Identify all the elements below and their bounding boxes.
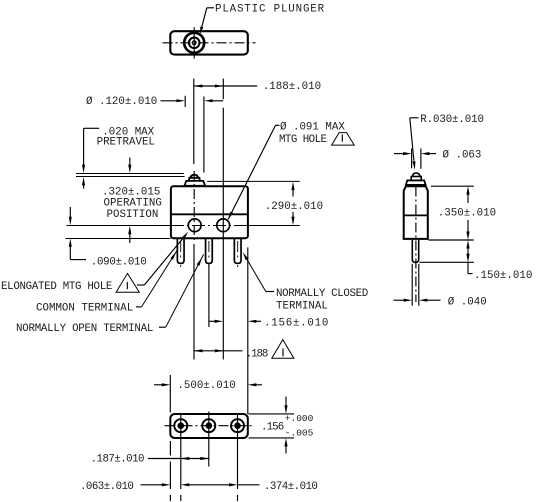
extension line left of .188 top dim [193,79,195,165]
svg-text:POSITION: POSITION [107,209,159,221]
side nib dome [412,173,420,176]
svg-text:.374±.010: .374±.010 [264,481,317,493]
svg-text:.156±.010: .156±.010 [264,317,329,329]
text .290 [265,201,323,213]
.156 stk bottom extension [249,437,295,439]
flag triangle 1 after MTG HOLE [332,133,355,146]
svg-text:Ø .091 MAX: Ø .091 MAX [280,122,345,134]
text ELONGATED MTG HOLE [1,281,112,293]
.500 extension left [169,375,171,413]
.350 bottom extension [429,239,474,241]
text .156 stacked [261,413,314,439]
svg-text:.090±.010: .090±.010 [91,256,147,268]
pretravel bracket and arrows [82,128,99,188]
dim line .188 top with arrows [194,85,257,88]
flag triangle 1 elongated [116,273,139,292]
bottom right crosshair [237,415,239,442]
svg-text:R.030±.010: R.030±.010 [420,114,484,126]
svg-text:NORMALLY OPEN TERMINAL: NORMALLY OPEN TERMINAL [16,323,153,335]
.374 extensions [237,442,239,502]
svg-text:.188: .188 [246,348,268,360]
note text MTG HOLE [279,134,327,146]
svg-text:COMMON TERMINAL: COMMON TERMINAL [36,303,133,315]
front body divider line [171,213,247,215]
.187 extensions [170,441,208,501]
svg-text:.156: .156 [261,422,284,434]
text .063 [80,481,133,493]
.290 dim line and arrows [291,182,294,226]
text NORMALLY OPEN TERMINAL [16,323,153,335]
text .020 MAX [102,126,154,138]
.090 bracket [70,259,86,261]
text Ø.040 [448,296,487,308]
svg-text:.188±.010: .188±.010 [263,81,321,93]
ext line plunger right edge [203,97,205,173]
text .350 [438,207,496,219]
bottom left terminal bullseye [174,419,187,432]
operating position line [76,176,185,178]
.090 arrows [69,207,72,260]
text OPERATING [104,198,162,210]
extension middle terminal lower [208,264,210,327]
bottom left crosshair [180,415,182,442]
text .188 lower [246,348,268,360]
text .150 [474,270,532,282]
svg-text:+.000: +.000 [285,413,314,424]
text R.030 [420,114,484,126]
top view vertical crosshair [193,27,195,58]
text .320 [102,187,160,199]
front body outline [171,186,248,238]
extension line left hole center lower [193,244,195,360]
.150 bracket [468,262,473,273]
dim Ø.120 leader+arrows [161,99,224,102]
top view housing outline [170,31,248,54]
svg-text:.350±.010: .350±.010 [438,207,496,219]
side collar [406,180,426,185]
front left terminal (common) [177,239,184,267]
bottom middle crosshair [208,412,210,442]
front plunger/hole vertical centerline [193,171,195,241]
.350 top extension [431,185,474,187]
front left mounting hole [188,219,201,232]
.150 terminal-bottom extension [420,261,474,263]
leader from Ø.091 note to NC hole [228,125,280,220]
leader common terminal [136,250,178,307]
body bottom extension left [66,238,171,240]
note text Ø.091 MAX [280,122,345,134]
svg-text:Ø .040: Ø .040 [448,296,487,308]
text .156 lower [264,317,329,329]
Ø.063 arrows [394,152,436,155]
front right mounting hole [217,219,230,232]
top view horizontal centerline [163,42,256,44]
.320 bottom arrow [128,226,131,243]
svg-text:.320±.015: .320±.015 [102,187,160,199]
front plunger flange [184,181,205,186]
text TERMINAL (nc) [276,300,328,312]
text COMMON TERMINAL [36,303,133,315]
svg-text:NORMALLY CLOSED: NORMALLY CLOSED [276,288,368,300]
side vertical centerline [415,187,417,303]
side nib [411,177,421,181]
svg-text:.500±.010: .500±.010 [177,380,235,392]
dim text .188 +-.010 top [263,81,321,93]
leader normally closed terminal [243,252,274,291]
.500 dim arrows [154,383,262,386]
text .374 [264,481,317,493]
leader elongated mtg hole [137,232,188,285]
bottom view horizontal centerline [165,425,254,427]
Ø.040 arrows [394,299,441,302]
ext line plunger left edge [184,96,186,107]
Ø.063 extensions [412,149,421,169]
.187 dim [148,457,209,460]
text NORMALLY CLOSED [276,288,368,300]
side body outline [404,186,428,239]
text POSITION [107,209,159,221]
flag triangle 1 after .188 [272,340,294,359]
svg-text:Ø .063: Ø .063 [443,150,482,162]
.156 stk top extension [249,413,295,415]
bottom right terminal bullseye [231,419,244,432]
svg-text:.150±.010: .150±.010 [474,270,532,282]
R.030 leader [410,118,419,170]
text Ø.063 [443,150,482,162]
.150 arrows [466,240,469,262]
.350 arrows [466,186,469,240]
.156 dim [209,320,261,323]
.320 top arrow [128,158,131,174]
extension line right (through NC hole) [222,79,224,360]
front middle terminal (normally open) [206,239,213,267]
svg-text:MTG HOLE: MTG HOLE [279,134,327,146]
front plunger dome [191,175,199,178]
.188 lower dim [194,349,243,352]
hole centerline horizontal [67,225,300,227]
svg-text:TERMINAL: TERMINAL [276,300,328,312]
front plunger mid tier [189,178,200,181]
text .090 [91,256,147,268]
label PLASTIC PLUNGER [215,4,325,16]
text PRETRAVEL [97,136,155,148]
svg-text:.290±.010: .290±.010 [265,201,323,213]
text .187 [91,454,144,466]
leader to PLASTIC PLUNGER text [200,8,214,33]
.156 stk arrows [284,397,287,454]
svg-text:-.005: -.005 [285,428,314,439]
dim text Ø.120 [86,96,157,108]
bottom middle terminal bullseye [202,419,215,432]
top view plunger bullseye [184,33,204,53]
text .500 [177,380,235,392]
.063 dim [141,483,260,486]
svg-text:PLASTIC PLUNGER: PLASTIC PLUNGER [215,4,325,16]
free-position right extension [207,180,299,182]
svg-text:.063±.010: .063±.010 [80,481,133,493]
leader normally open terminal [159,254,204,327]
front right terminal (normally closed) [234,239,241,267]
svg-text:ELONGATED MTG HOLE: ELONGATED MTG HOLE [1,281,112,293]
Ø.040 extensions [412,264,419,306]
free position line [76,173,184,175]
svg-text:PRETRAVEL: PRETRAVEL [97,136,155,148]
extension NC right lower [247,247,249,414]
side body divider [404,214,428,216]
svg-text:Ø .120±.010: Ø .120±.010 [86,96,157,108]
bottom view outline [170,414,248,438]
svg-text:.187±.010: .187±.010 [91,454,144,466]
side terminal [412,240,418,262]
